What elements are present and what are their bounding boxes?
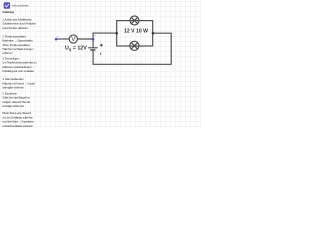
svg-text:erfolgen, dass der Plan die: erfolgen, dass der Plan die (2, 100, 31, 104)
wire: battery bottom, bottom rail, right side up to lamp box (93, 33, 171, 64)
svg-text:natengitter entfernen.: natengitter entfernen. (2, 86, 25, 90)
svg-text:4. Gitter ausblenden:: 4. Gitter ausblenden: (2, 77, 24, 81)
node A (left terminal point) (55, 36, 58, 40)
svg-text:entfernen.: entfernen. (2, 51, 13, 55)
lamp L2 (bottom) (130, 41, 139, 50)
svg-text:3. Text einfügen:: 3. Text einfügen: (2, 56, 19, 60)
instructions panel text (2, 10, 37, 128)
battery U1 plates (88, 48, 98, 50)
lamp L1 (top) (130, 16, 139, 25)
battery plus terminal marker (100, 44, 103, 47)
svg-text:Anleitung einblenden: Anleitung einblenden (12, 4, 29, 8)
svg-text:Uq = 12V: Uq = 12V (65, 46, 87, 52)
svg-text:1. Aufbau des Schaltkreises:: 1. Aufbau des Schaltkreises: (2, 17, 32, 21)
checkbox icon (Anleitung) (4, 2, 11, 9)
svg-text:Häkchen bei Ansicht → Koordi-: Häkchen bei Ansicht → Koordi- (2, 81, 35, 85)
battery minus terminal marker (100, 53, 102, 55)
svg-text:Schaltelemente durch Anklicken: Schaltelemente durch Anklicken (2, 22, 36, 26)
svg-text:Sollte über das Beispiel so: Sollte über das Beispiel so (2, 96, 30, 100)
svg-text:Bearbeiten → Eigenschaften: Bearbeiten → Eigenschaften (2, 39, 33, 43)
wire: lamp parallel box outline (117, 21, 153, 46)
svg-text:5. Exportieren:: 5. Exportieren: (2, 91, 18, 95)
junction: right side of lamp box (152, 32, 155, 35)
wire: node B up and right to lamp box (93, 33, 117, 47)
voltmeter V1 (69, 35, 77, 43)
svg-text:um den Schaltplan aufziehen: um den Schaltplan aufziehen (2, 115, 33, 119)
svg-text:eines Punktes platzieren.: eines Punktes platzieren. (2, 26, 29, 30)
svg-text:12 V 10 W: 12 V 10 W (124, 29, 148, 35)
junction: left side of lamp box (115, 32, 118, 35)
svg-text:öffnen, Punkte auswählen,: öffnen, Punkte auswählen, (2, 43, 30, 47)
svg-text:benötigte Größe hat.: benötigte Größe hat. (2, 104, 24, 108)
node B (junction at battery top, blue point) (92, 35, 96, 41)
svg-text:Anleitung:: Anleitung: (2, 10, 14, 14)
svg-text:Punktfang auf „Aus“ umstellen.: Punktfang auf „Aus“ umstellen. (2, 69, 35, 73)
svg-text:Häkchen bei Objekt anzeigen: Häkchen bei Objekt anzeigen (2, 47, 34, 51)
wire: voltmeter to node B (77, 38, 93, 40)
svg-text:Um Textelemente problemlos zu: Um Textelemente problemlos zu (2, 61, 37, 65)
svg-text:Mit der Maus einen Bereich: Mit der Maus einen Bereich (2, 111, 31, 115)
svg-text:platzieren, bei Einstellungen: platzieren, bei Einstellungen → (2, 65, 35, 69)
svg-text:2. Punkte ausschalten: 2. Punkte ausschalten (2, 34, 26, 38)
svg-text:und über Datei → Exportieren: und über Datei → Exportieren (2, 120, 34, 124)
wire: left terminal to voltmeter (56, 38, 69, 40)
svg-text:in Zwischenablage speichern.: in Zwischenablage speichern. (2, 124, 34, 127)
